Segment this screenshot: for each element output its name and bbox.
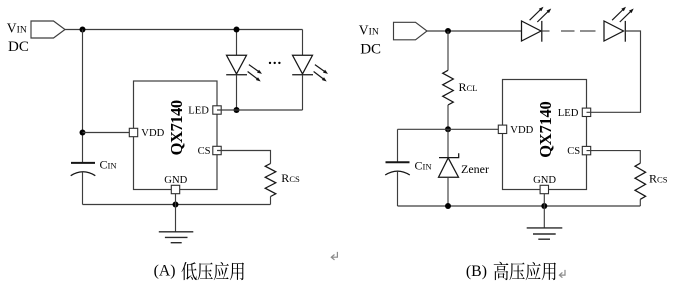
IC U1 QX7140 (A)	[134, 81, 218, 190]
svg-text:QX7140: QX7140	[167, 100, 186, 156]
svg-text:DC: DC	[8, 39, 29, 55]
capacitor CIN (B)	[397, 129, 399, 161]
node VIN junction B	[445, 28, 451, 34]
connector VIN DC (B)	[394, 22, 428, 40]
pin LED B	[582, 108, 590, 116]
node LED row junction A	[234, 107, 240, 113]
wire CS to RCS A	[217, 151, 271, 164]
wire to RCL B	[447, 31, 449, 70]
svg-text:CS: CS	[198, 146, 211, 157]
svg-text:RCS: RCS	[649, 172, 668, 186]
svg-text:DC: DC	[360, 41, 381, 57]
pin VDD A	[129, 128, 137, 136]
wire LED2 anode drop A	[302, 30, 304, 56]
pin GND A	[171, 185, 179, 193]
pin LED A	[213, 106, 221, 114]
LED D2 (B)	[522, 21, 542, 41]
svg-text:RCS: RCS	[281, 171, 300, 185]
node VDD junction A	[80, 130, 86, 136]
zener diode D1 (B)	[447, 129, 449, 157]
wire GND stem B	[543, 194, 545, 228]
pilcrow after drawing A	[331, 252, 337, 260]
capacitor CIN (A)	[71, 162, 95, 164]
svg-text:VDD: VDD	[510, 125, 533, 136]
svg-text:LED: LED	[188, 106, 209, 117]
svg-text:CIN: CIN	[415, 159, 433, 173]
LED D2 (A)	[293, 55, 313, 74]
svg-text:(B): (B)	[466, 263, 487, 280]
node LED1 anode junction A	[234, 27, 240, 33]
pilcrow after caption B	[559, 270, 565, 278]
wire LED2 cathode stem A	[302, 75, 304, 110]
connector VIN DC (A)	[31, 21, 65, 38]
wire LED pin row A	[217, 109, 303, 111]
node zener junction B	[445, 203, 451, 209]
node ground junction B	[541, 203, 547, 209]
wire VDD rail B	[398, 128, 503, 130]
ground symbol B	[527, 227, 563, 229]
svg-text:QX7140: QX7140	[536, 101, 555, 158]
wire bottom rail A	[83, 204, 271, 206]
wire VDD A	[83, 132, 134, 134]
resistor RCL (B)	[443, 70, 454, 105]
wire left rail A	[82, 30, 84, 163]
ground symbol A	[159, 231, 194, 233]
node ground junction A	[173, 202, 179, 208]
wire LED return B	[587, 31, 641, 112]
pin CS B	[582, 146, 590, 154]
svg-text:GND: GND	[533, 175, 556, 186]
node VIN junction A	[80, 27, 86, 33]
pin CS A	[213, 146, 221, 154]
wire LED1 cathode stem A	[236, 75, 238, 110]
ellipsis dots A	[269, 62, 271, 64]
pin VDD B	[498, 125, 506, 133]
svg-text:(A): (A)	[154, 262, 176, 279]
wire bottom rail B	[398, 205, 641, 207]
svg-text:VDD: VDD	[141, 128, 164, 139]
svg-text:CIN: CIN	[100, 158, 118, 172]
LED D3 (B)	[604, 21, 624, 41]
pin GND B	[540, 185, 548, 193]
resistor RCS (B)	[635, 163, 646, 199]
svg-text:GND: GND	[164, 175, 187, 186]
wire dashed LED string B	[542, 30, 550, 32]
wire LED1 anode stem A	[236, 30, 238, 56]
wire CS to RCS B	[587, 151, 641, 164]
wire GND stem A	[175, 194, 177, 232]
LED D1 (A)	[227, 55, 247, 74]
svg-text:RCL: RCL	[459, 80, 478, 94]
wire top rail A	[65, 29, 303, 31]
svg-text:LED: LED	[558, 108, 579, 119]
resistor RCS (A)	[265, 164, 276, 197]
IC U1 QX7140 (B)	[503, 80, 587, 190]
svg-text:Zener: Zener	[461, 162, 489, 176]
node VDD junction B	[445, 126, 451, 132]
svg-text:CS: CS	[567, 146, 580, 157]
wire top rail B	[427, 30, 522, 32]
